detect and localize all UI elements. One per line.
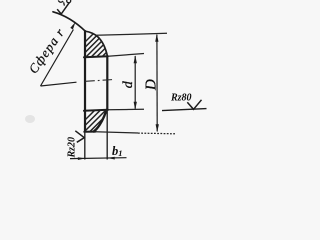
clipped roughness value 2,5 <box>58 0 64 5</box>
svg-text:D: D <box>143 79 159 91</box>
hole top edge <box>84 56 108 57</box>
hole silhouette vertical <box>106 56 108 110</box>
dimension line b1 with inward arrows <box>70 157 127 160</box>
roughness checkmark on sphere arc <box>57 2 69 14</box>
scan smudge <box>25 115 35 123</box>
washer bottom flat face <box>84 131 95 133</box>
leader line for sphere radius <box>41 22 77 86</box>
sphere arc (outer spherical surface) <box>53 12 108 57</box>
bottom sphere arc <box>94 110 107 132</box>
extension line D top <box>96 33 167 35</box>
b1 extension line left <box>84 132 86 160</box>
dimension line D <box>155 34 159 133</box>
leader bend segment <box>41 82 77 86</box>
Rz20 roughness mark on flat face <box>67 131 85 159</box>
svg-text:d: d <box>121 80 136 88</box>
extension line d bottom <box>108 108 144 111</box>
hole bottom edge <box>84 110 108 111</box>
Rz80 general roughness mark <box>162 93 207 111</box>
washer left face (thick outline) <box>84 31 86 132</box>
svg-text:Rz20: Rz20 <box>67 137 78 159</box>
centerline (axis, dash-dot) <box>85 80 114 82</box>
extension line D bottom (fades to dashes) <box>96 132 139 133</box>
extension line d top <box>108 54 144 57</box>
dimension line d <box>134 55 137 110</box>
b1 extension line right <box>106 110 108 160</box>
svg-text:Rz80: Rz80 <box>170 93 192 104</box>
